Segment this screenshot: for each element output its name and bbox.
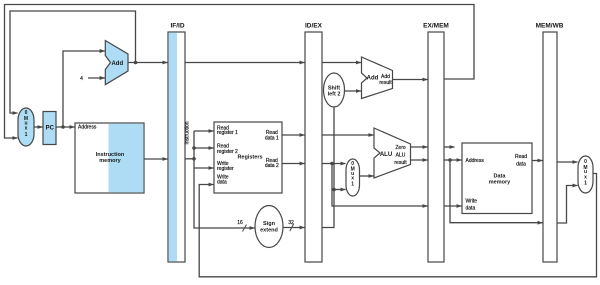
svg-text:Registers: Registers — [237, 155, 262, 161]
svg-text:data: data — [466, 205, 476, 211]
svg-text:memory: memory — [489, 180, 511, 186]
svg-text:EX/MEM: EX/MEM — [423, 23, 449, 30]
svg-text:data: data — [217, 180, 227, 186]
svg-text:Add: Add — [111, 61, 123, 67]
svg-text:Read: Read — [515, 154, 527, 160]
svg-text:Data: Data — [494, 173, 507, 179]
svg-text:register 2: register 2 — [217, 149, 238, 155]
svg-text:IF/ID: IF/ID — [170, 23, 184, 30]
svg-text:ALU: ALU — [396, 153, 406, 159]
svg-text:16: 16 — [237, 220, 243, 226]
svg-text:data: data — [516, 162, 526, 168]
svg-text:register: register — [217, 166, 234, 172]
svg-text:result: result — [394, 160, 407, 166]
svg-text:4: 4 — [80, 76, 83, 82]
svg-text:Add: Add — [367, 76, 379, 82]
svg-text:register 1: register 1 — [217, 130, 238, 136]
svg-text:1: 1 — [584, 181, 587, 187]
svg-text:Sign: Sign — [263, 221, 276, 227]
svg-text:PC: PC — [46, 126, 55, 132]
svg-text:data 2: data 2 — [265, 163, 279, 169]
svg-text:Write: Write — [466, 198, 478, 204]
svg-text:MEM/WB: MEM/WB — [536, 23, 564, 30]
svg-text:x: x — [25, 126, 28, 132]
svg-text:data 1: data 1 — [265, 136, 279, 142]
svg-text:32: 32 — [288, 220, 294, 226]
svg-text:Address: Address — [466, 158, 485, 164]
svg-text:memory: memory — [99, 158, 121, 164]
svg-text:Address: Address — [78, 125, 97, 131]
svg-text:ALU: ALU — [380, 152, 392, 158]
svg-text:extend: extend — [260, 228, 278, 234]
svg-text:Instruction: Instruction — [185, 121, 191, 144]
svg-text:result: result — [379, 80, 392, 86]
svg-text:1: 1 — [25, 132, 28, 138]
svg-text:ID/EX: ID/EX — [305, 23, 323, 30]
svg-text:x: x — [584, 175, 587, 181]
svg-text:Zero: Zero — [395, 145, 406, 151]
svg-text:left 2: left 2 — [328, 92, 341, 98]
svg-text:1: 1 — [351, 182, 354, 188]
